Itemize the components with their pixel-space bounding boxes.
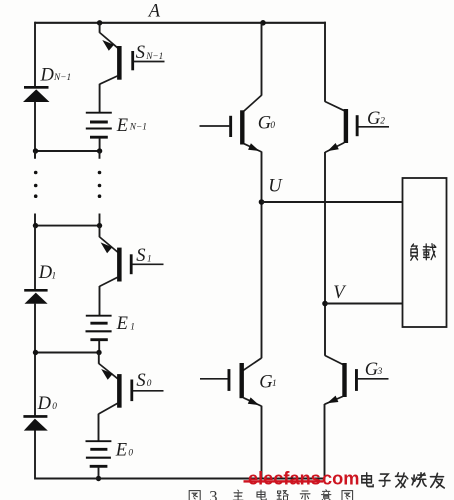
- label D_N-1: [40, 65, 72, 85]
- svg-text:N−1: N−1: [53, 73, 71, 83]
- node V junction dot: [322, 301, 328, 307]
- watermark 电 (glyph strokes): [362, 473, 373, 487]
- svg-text:D: D: [37, 394, 52, 414]
- svg-text:2: 2: [380, 116, 385, 126]
- svg-text:0: 0: [52, 402, 57, 412]
- wire row2 horizontal: [35, 225, 100, 227]
- wire G_0 emitter to U and down to G_1: [261, 152, 263, 359]
- diode D_N-1: [24, 86, 49, 102]
- watermark strike line: [244, 480, 324, 482]
- svg-text:V: V: [333, 283, 347, 303]
- svg-text:E: E: [116, 314, 128, 334]
- junction dots row3: [33, 350, 38, 355]
- ellipsis dots battery column: [98, 171, 102, 198]
- label S_N-1: [136, 43, 164, 63]
- node U junction dot: [259, 199, 265, 205]
- label S_1: [136, 246, 151, 266]
- caption 图 (glyph strokes): [189, 491, 200, 500]
- label E_0: [115, 440, 134, 460]
- svg-text:com: com: [322, 469, 359, 489]
- wire top bus A: [35, 22, 326, 24]
- svg-text:1: 1: [130, 322, 135, 332]
- label G_3: [365, 360, 383, 380]
- wire G_1 emitter to bottom bus: [261, 406, 263, 480]
- wire V to load: [325, 303, 403, 305]
- svg-text:U: U: [268, 177, 283, 197]
- wire bottom bus: [35, 478, 325, 480]
- wire row3 horizontal: [35, 352, 99, 354]
- load box: [403, 178, 447, 327]
- ellipsis dots left rail: [34, 171, 38, 198]
- wire S_1 emitter to E_1: [99, 286, 101, 316]
- wire left rail below D_1: [34, 304, 36, 416]
- wire E_0 to bottom bus: [98, 467, 100, 479]
- diode D_1: [24, 289, 47, 304]
- svg-text:N−1: N−1: [145, 52, 163, 62]
- wire row1 horizontal: [35, 150, 100, 152]
- label G_2: [367, 109, 385, 129]
- wire left rail below D_N-1: [34, 101, 36, 158]
- wire right branch 2 upper (top bus to G_2): [324, 22, 326, 102]
- load label 载 (glyph strokes): [423, 244, 436, 260]
- wire U to load: [262, 201, 403, 203]
- svg-text:0: 0: [147, 379, 152, 389]
- svg-text:G: G: [259, 372, 272, 392]
- svg-text:3: 3: [377, 367, 383, 377]
- junction dots row2: [33, 223, 38, 228]
- svg-text:N−1: N−1: [129, 122, 147, 132]
- svg-text:G: G: [258, 114, 271, 134]
- caption 图 (glyph strokes): [342, 491, 353, 500]
- transistor S_0: [99, 353, 164, 415]
- svg-text:G: G: [367, 109, 380, 129]
- label G_1: [259, 372, 276, 392]
- svg-text:1: 1: [147, 254, 152, 264]
- svg-text:S: S: [136, 371, 145, 391]
- transistor S_1: [100, 226, 164, 287]
- wire stubs above row2: [35, 214, 100, 226]
- wire left rail row2 to D_1: [34, 226, 36, 290]
- svg-text:D: D: [40, 65, 55, 85]
- svg-text:1: 1: [272, 379, 277, 389]
- svg-text:S: S: [136, 246, 145, 266]
- caption 示 (glyph strokes): [300, 491, 310, 500]
- watermark 友 (glyph strokes): [431, 473, 445, 488]
- watermark 发 (glyph strokes): [395, 473, 407, 488]
- battery E_0: [86, 441, 112, 466]
- wire left rail below D_0: [34, 430, 36, 479]
- wire G_2 emitter through U crossing to V: [324, 152, 326, 356]
- node junction dot right branch: [260, 20, 266, 26]
- battery E_1: [86, 316, 112, 340]
- svg-text:G: G: [365, 360, 378, 380]
- label D_0: [37, 394, 58, 414]
- svg-text:3: 3: [209, 487, 217, 500]
- wire E_N-1 to row1: [99, 138, 101, 151]
- wire G_3 emitter to bottom bus: [324, 404, 326, 480]
- svg-text:0: 0: [270, 121, 275, 131]
- transistor G_0: [200, 95, 262, 152]
- caption 意 (glyph strokes): [322, 490, 331, 500]
- wire stubs below row1: [35, 151, 100, 159]
- watermark 子 (glyph strokes): [379, 474, 390, 486]
- diode D_0: [23, 415, 47, 431]
- battery E_N-1: [86, 113, 112, 138]
- load label 负 (glyph strokes): [411, 244, 418, 260]
- caption 主 (glyph strokes): [233, 490, 243, 500]
- wire right branch 1 upper (node A to G_0): [261, 23, 263, 96]
- wire S_0 emitter to E_0: [98, 414, 100, 442]
- label E_N-1: [116, 116, 147, 136]
- junction dots row1: [33, 148, 38, 153]
- watermark dot: [317, 480, 320, 483]
- watermark 烧 (glyph strokes): [412, 473, 426, 487]
- svg-text:A: A: [147, 1, 161, 21]
- transistor G_2: [325, 102, 389, 153]
- svg-text:E: E: [115, 440, 127, 460]
- svg-text:E: E: [116, 116, 128, 136]
- wire E_1 to row3: [98, 340, 100, 352]
- node A junction dot left: [97, 20, 102, 25]
- svg-text:1: 1: [52, 271, 57, 281]
- wire battery column to E_N-1: [99, 84, 101, 113]
- caption 电 (glyph strokes): [257, 490, 266, 500]
- svg-text:elecfans: elecfans: [248, 469, 321, 489]
- transistor G_3: [325, 356, 389, 405]
- wire left rail upper: [34, 22, 36, 87]
- label E_1: [116, 314, 135, 334]
- caption 路 (glyph strokes): [277, 491, 288, 500]
- svg-text:S: S: [136, 43, 145, 63]
- transistor S_N-1: [100, 23, 165, 84]
- label S_0: [136, 371, 151, 391]
- svg-text:0: 0: [128, 449, 133, 459]
- label G_0: [258, 114, 276, 134]
- junction dot bottom bus: [96, 476, 101, 481]
- label D_1: [38, 263, 56, 283]
- transistor G_1: [200, 358, 262, 406]
